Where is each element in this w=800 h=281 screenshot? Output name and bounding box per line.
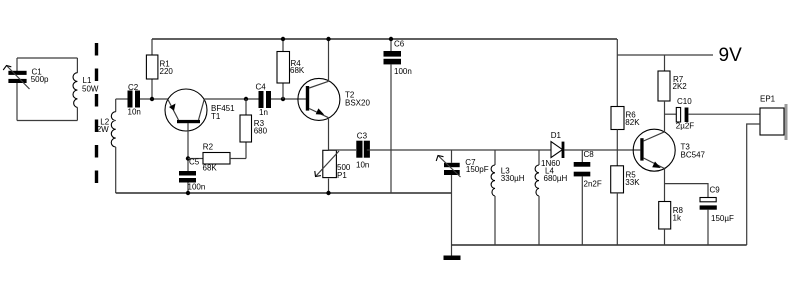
EP1 ground wire	[747, 124, 760, 245]
svg-text:2µ2F: 2µ2F	[676, 122, 695, 131]
capacitor C4	[256, 83, 307, 118]
resistor R7	[658, 55, 687, 132]
capacitor C5	[179, 158, 205, 194]
inductor L1	[73, 58, 99, 121]
node C5 ground	[186, 191, 190, 195]
9V sub rail	[617, 54, 713, 56]
svg-text:9V: 9V	[719, 45, 743, 66]
capacitor C2	[128, 83, 141, 117]
svg-text:BC547: BC547	[681, 151, 706, 160]
svg-text:100n: 100n	[188, 183, 206, 192]
svg-text:C4: C4	[256, 83, 267, 92]
svg-text:R2: R2	[203, 143, 214, 152]
wire L2 to C2	[116, 98, 128, 100]
svg-text:82K: 82K	[625, 118, 640, 127]
node R4 base	[281, 97, 285, 101]
inductor L4	[535, 150, 567, 245]
resistor R1	[146, 39, 173, 99]
svg-text:500p: 500p	[31, 75, 49, 84]
svg-text:2K2: 2K2	[673, 82, 688, 91]
svg-text:10n: 10n	[128, 108, 141, 117]
svg-text:D1: D1	[551, 131, 562, 140]
earphone EP1	[760, 95, 788, 141]
left ground rail	[116, 192, 452, 194]
svg-text:150µF: 150µF	[711, 214, 734, 223]
wire T2 collector to rail	[328, 39, 330, 82]
svg-text:68K: 68K	[290, 66, 305, 75]
node R3/C4	[244, 97, 248, 101]
wire T1 base down	[187, 123, 189, 171]
resistor R6	[611, 107, 640, 166]
inductor L2	[97, 99, 116, 193]
svg-text:1k: 1k	[673, 214, 682, 223]
svg-text:680: 680	[254, 127, 268, 136]
capacitor C3	[356, 132, 370, 170]
wire C7 to lower ground rail	[451, 193, 453, 245]
supply drop wire	[616, 39, 618, 107]
resistor R8	[659, 202, 684, 246]
node T2 collector rail	[326, 37, 330, 41]
ground symbol	[444, 245, 461, 260]
transistor T2	[298, 78, 371, 120]
transistor T1	[165, 89, 235, 131]
wire C3 to detector	[367, 149, 551, 151]
wire emitter to C9	[665, 184, 709, 198]
node base/R2/C5	[186, 156, 190, 160]
resistor R2	[203, 143, 247, 173]
top supply rail	[152, 38, 617, 40]
tank loop top wire	[17, 57, 77, 59]
tank loop bottom wire	[17, 120, 77, 122]
capacitor C6	[384, 39, 412, 193]
potentiometer P1	[315, 150, 351, 193]
wire T2 emitter down	[328, 118, 330, 151]
svg-text:C2: C2	[128, 83, 139, 92]
svg-text:680µH: 680µH	[544, 174, 568, 183]
svg-text:C10: C10	[677, 97, 692, 106]
wire T3 emitter down	[664, 169, 666, 202]
node P1 ground	[326, 191, 330, 195]
resistor R4	[277, 39, 305, 99]
wire T1 collector	[204, 98, 258, 100]
svg-text:C3: C3	[357, 132, 368, 141]
wire node to R2	[188, 158, 203, 160]
svg-text:2n2F: 2n2F	[584, 180, 602, 189]
svg-text:BSX20: BSX20	[345, 99, 370, 108]
svg-text:68K: 68K	[203, 164, 218, 173]
wire P1 top to C3	[329, 149, 357, 151]
svg-text:P1: P1	[337, 171, 347, 180]
resistor R3	[240, 99, 268, 159]
capacitor C10	[665, 97, 761, 131]
svg-text:50W: 50W	[82, 85, 99, 94]
svg-text:C5: C5	[189, 158, 200, 167]
node C6 rail	[389, 37, 393, 41]
capacitor C8	[574, 150, 602, 245]
node T1 emitter junction	[150, 97, 154, 101]
svg-text:C9: C9	[710, 186, 721, 195]
ferrite core (dashed)	[95, 43, 98, 190]
svg-text:330µH: 330µH	[501, 174, 525, 183]
capacitor C1	[3, 66, 49, 90]
resistor R5	[611, 166, 640, 245]
svg-text:1n: 1n	[259, 108, 268, 117]
svg-text:C8: C8	[584, 150, 595, 159]
svg-text:C6: C6	[394, 40, 405, 49]
transistor T3	[633, 129, 705, 171]
variable capacitor C7	[436, 150, 488, 193]
diode D1	[541, 131, 640, 168]
svg-text:T1: T1	[211, 112, 221, 121]
svg-text:EP1: EP1	[760, 95, 776, 104]
tank loop left wire	[16, 58, 18, 121]
inductor L3	[491, 150, 525, 245]
svg-text:2W: 2W	[97, 125, 109, 134]
node R4 rail	[281, 37, 285, 41]
svg-text:220: 220	[160, 67, 174, 76]
svg-text:100n: 100n	[394, 67, 412, 76]
svg-text:150pF: 150pF	[466, 165, 489, 174]
svg-text:33K: 33K	[625, 178, 640, 187]
wire C2 to node	[140, 98, 168, 100]
lower ground rail	[452, 244, 747, 246]
svg-text:1N60: 1N60	[541, 159, 561, 168]
svg-text:10n: 10n	[356, 161, 369, 170]
capacitor C9	[700, 186, 734, 246]
